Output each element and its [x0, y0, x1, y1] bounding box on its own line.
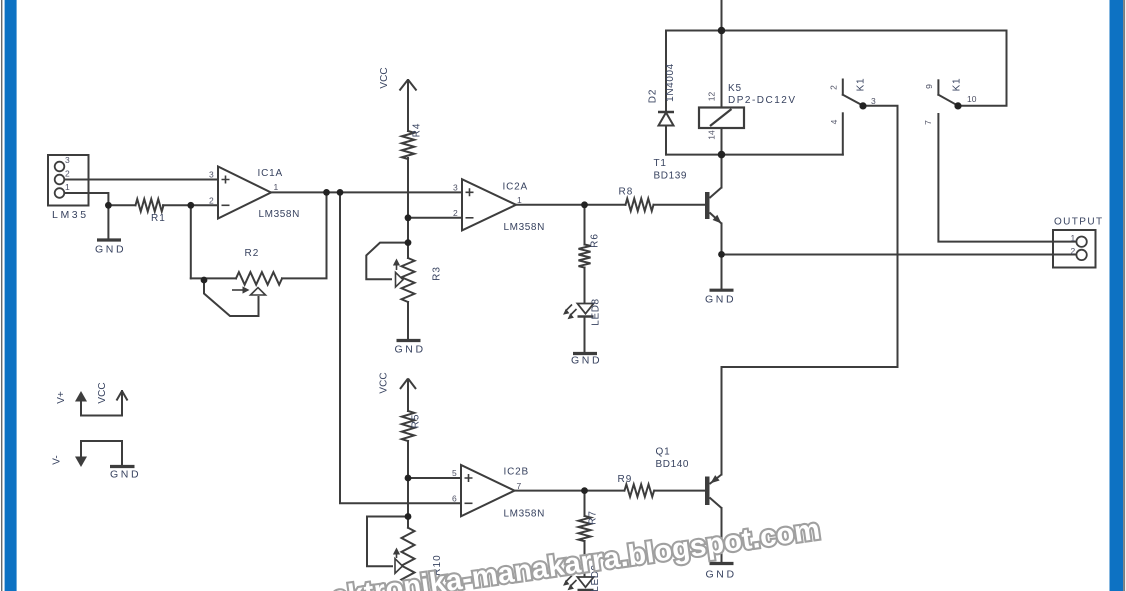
svg-text:7: 7: [923, 120, 933, 125]
junction relay supply rail node: [718, 27, 726, 35]
potentiometer R10 body: [402, 528, 415, 583]
svg-text:2: 2: [1071, 246, 1076, 256]
wire R2 to right vertical up to IC1A output: [282, 192, 327, 278]
wire IC1A output to IC2A noninverting input: [271, 191, 462, 193]
wire R9 to Q1 base: [655, 490, 705, 492]
wire VCC to R4: [407, 80, 409, 131]
svg-text:R6: R6: [590, 233, 601, 248]
wire GND stem below LM35: [107, 205, 109, 238]
potentiometer R2 wiper arrow: [232, 286, 266, 295]
svg-text:GND: GND: [95, 244, 126, 256]
transistor T1: [705, 188, 722, 224]
svg-text:LED8: LED8: [591, 298, 602, 325]
wire feedback left vertical: [190, 205, 192, 278]
svg-text:7: 7: [517, 481, 522, 491]
svg-text:GND: GND: [706, 569, 737, 581]
svg-text:BD140: BD140: [656, 459, 690, 470]
op-amp IC2B: [461, 465, 515, 516]
svg-text:2: 2: [65, 169, 70, 179]
svg-text:OUTPUT: OUTPUT: [1054, 217, 1104, 228]
ground symbol V- cluster: [110, 465, 135, 468]
ground symbol below T1: [710, 289, 734, 292]
junction IC2A output node: [581, 201, 588, 208]
transistor Q1: [705, 475, 722, 509]
relay coil K5: [699, 108, 744, 129]
svg-text:3: 3: [209, 170, 214, 180]
svg-text:GND: GND: [395, 344, 426, 356]
wire T1 collector vertical: [721, 155, 723, 188]
wire top horizontal rail: [666, 30, 1007, 32]
wire top rail down to D2 cathode: [665, 31, 667, 113]
resistor R1: [136, 199, 164, 211]
wire node to IC2B noninverting input: [408, 477, 461, 479]
svg-text:2: 2: [209, 195, 214, 205]
resistor R9: [625, 484, 655, 496]
svg-text:K1: K1: [856, 78, 867, 92]
resistor R8: [626, 199, 654, 211]
potentiometer R3 body: [402, 258, 415, 302]
svg-text:R4: R4: [412, 123, 423, 138]
border left blue bar: [5, 0, 17, 591]
potentiometer R10 wiper arrow: [393, 548, 403, 574]
junction IC1A output to IC2B node: [337, 189, 344, 196]
svg-text:3: 3: [65, 155, 70, 165]
svg-text:4: 4: [829, 119, 839, 124]
ground symbol below Q1: [710, 562, 734, 565]
svg-text:R9: R9: [618, 474, 633, 485]
potentiometer R2 body: [236, 272, 282, 285]
wire LM35 pin1 down to GND node: [65, 193, 109, 205]
junction IC2B output node: [581, 487, 588, 494]
wire IC2A output to R8: [516, 204, 626, 206]
junction IC1A output feedback node: [323, 189, 330, 196]
svg-text:6: 6: [452, 493, 457, 503]
wire relay rail top vertical: [721, 0, 723, 108]
svg-text:Q1: Q1: [656, 447, 671, 458]
wire V+ supply link: [81, 391, 122, 416]
V- supply arrow: [75, 457, 87, 468]
svg-text:LM358N: LM358N: [259, 209, 300, 220]
wire feedback bottom left to R2: [191, 277, 236, 279]
resistor R4: [402, 131, 414, 159]
svg-text:IC1A: IC1A: [258, 168, 283, 179]
wire node down to R7: [584, 491, 586, 516]
wire K1b pole to top rail: [958, 31, 1007, 106]
wire LED8 to GND: [584, 319, 586, 353]
ground symbol below R3: [397, 339, 421, 342]
wire R3 wiper loop: [366, 243, 408, 280]
svg-text:LM35: LM35: [52, 209, 89, 221]
connector OUTPUT: [1053, 230, 1096, 268]
svg-text:1N4004: 1N4004: [665, 63, 676, 102]
wire K1b blade: [938, 95, 958, 106]
wire T1 emitter vertical: [721, 224, 723, 255]
svg-text:3: 3: [871, 96, 876, 106]
VCC arrow middle: [400, 379, 416, 412]
svg-text:2: 2: [829, 85, 839, 90]
wire relay coil bottom to node: [721, 128, 723, 155]
op-amp IC1A: [218, 167, 271, 219]
wire V- supply link: [81, 441, 122, 466]
svg-text:V-: V-: [52, 455, 63, 464]
wire K1a pole to Q1 emitter: [722, 106, 898, 475]
wire K1a upper contact stub: [842, 80, 844, 95]
svg-text:R8: R8: [619, 187, 634, 198]
svg-text:GND: GND: [110, 469, 141, 481]
wire T1 emitter node to OUTPUT pin2: [722, 254, 1077, 256]
svg-text:VCC: VCC: [379, 67, 390, 88]
V+ supply arrow: [75, 391, 87, 402]
connector LM35: [48, 155, 89, 206]
svg-text:R7: R7: [588, 510, 599, 525]
svg-text:IC2A: IC2A: [503, 182, 528, 193]
wire R8 to T1 base: [654, 204, 706, 206]
wire IC1A output down to IC2B inverting input: [340, 192, 461, 503]
junction T1 emitter output node: [718, 251, 725, 258]
svg-text:VCC: VCC: [379, 372, 390, 393]
svg-text:GND: GND: [705, 294, 736, 306]
wire R7 to LED9: [584, 541, 586, 577]
LED LED9: [563, 576, 594, 591]
wire K1a lower contact stub: [842, 113, 844, 154]
op-amp IC2A: [462, 179, 516, 230]
svg-text:BD139: BD139: [654, 171, 688, 182]
wire LM35 pin2 to IC1A noninverting input: [65, 179, 219, 181]
wire K1b lower contact to OUTPUT pin1: [938, 114, 1076, 242]
svg-text:IC2B: IC2B: [504, 467, 529, 478]
resistor R6: [579, 245, 591, 268]
svg-text:LM358N: LM358N: [504, 222, 545, 233]
wire R2 wiper loop: [204, 280, 259, 316]
ground symbol below LM35: [97, 238, 121, 241]
svg-text:LM358N: LM358N: [504, 509, 545, 520]
svg-text:R3: R3: [432, 266, 443, 281]
wire T1 emitter node to GND: [721, 254, 723, 289]
wire VCC2 to R5: [407, 390, 409, 411]
wire bottom relay rail: [666, 154, 843, 156]
svg-text:V+: V+: [56, 391, 67, 404]
svg-text:5: 5: [452, 468, 457, 478]
svg-text:R2: R2: [245, 248, 260, 259]
junction relay coil bottom node: [718, 151, 726, 159]
potentiometer R3 wiper arrow: [393, 259, 403, 288]
wire IC2B output to R9: [515, 490, 625, 492]
svg-text:1: 1: [274, 182, 279, 192]
wire K1a blade: [843, 95, 863, 106]
svg-text:R5: R5: [411, 414, 422, 429]
wire node down to R6: [584, 205, 586, 245]
svg-text:12: 12: [707, 92, 717, 102]
junction K1a pole: [859, 102, 866, 109]
junction IC1A inverting input node: [187, 202, 194, 209]
border left thin line: [1, 0, 2, 591]
border right grey line: [1123, 0, 1125, 591]
LED LED8: [563, 304, 594, 320]
resistor R7: [579, 516, 591, 541]
diode D2: [658, 112, 674, 126]
junction R3 wiper tie node: [405, 239, 412, 246]
wire R6 to LED8: [584, 268, 586, 304]
wire node down to R3: [407, 218, 409, 258]
wire node to R1: [108, 204, 135, 206]
resistor R5: [402, 411, 414, 441]
svg-text:D2: D2: [648, 89, 659, 103]
wire node down to R10 node: [407, 478, 409, 528]
svg-text:9: 9: [924, 84, 934, 89]
svg-text:1: 1: [517, 195, 522, 205]
wire R3 to GND: [407, 302, 409, 340]
svg-text:DP2-DC12V: DP2-DC12V: [728, 95, 797, 106]
junction IC2A inverting divider node: [405, 214, 412, 221]
svg-text:10: 10: [967, 94, 977, 104]
svg-text:2: 2: [453, 208, 458, 218]
junction LM35 ground node: [105, 202, 112, 209]
junction K1b pole: [954, 102, 961, 109]
wire node to IC2A inverting input: [408, 217, 462, 219]
svg-text:R1: R1: [151, 213, 166, 224]
border right blue bar: [1110, 0, 1124, 591]
junction R2 wiper tie node: [201, 277, 208, 284]
wire K1b upper contact stub: [937, 80, 939, 94]
ground symbol below LED8: [573, 352, 597, 355]
wire R1 to IC1A inverting input: [163, 204, 218, 206]
svg-text:VCC: VCC: [97, 382, 108, 403]
svg-text:K1: K1: [952, 78, 963, 92]
svg-text:1: 1: [1071, 233, 1076, 243]
VCC arrow supply cluster: [117, 391, 128, 401]
wire R5 down to IC2B noninverting node: [407, 441, 409, 478]
wire R10 wiper loop: [367, 517, 408, 567]
wire D2 anode down to bottom rail: [665, 126, 667, 155]
svg-text:GND: GND: [571, 355, 602, 367]
svg-text:1: 1: [65, 182, 70, 192]
wire R4 down to IC2A inverting node: [407, 158, 409, 218]
VCC arrow top: [400, 80, 417, 91]
svg-text:T1: T1: [654, 158, 667, 169]
junction R10 wiper tie node: [405, 513, 412, 520]
wire Q1 collector down to GND: [721, 508, 723, 563]
junction IC2B noninverting node: [405, 475, 412, 482]
svg-text:14: 14: [707, 130, 717, 140]
svg-text:K5: K5: [728, 83, 742, 94]
wire R10 bottom tail: [407, 588, 409, 591]
svg-text:3: 3: [453, 182, 458, 192]
